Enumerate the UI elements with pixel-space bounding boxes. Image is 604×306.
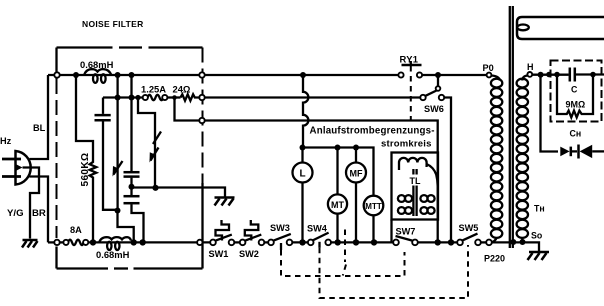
svg-text:Hz: Hz (0, 136, 12, 146)
svg-text:Tн: Tн (534, 204, 545, 214)
svg-text:MTT: MTT (365, 202, 382, 211)
svg-text:560KΩ: 560KΩ (80, 153, 91, 187)
svg-text:H: H (527, 62, 534, 72)
svg-text:SW4: SW4 (307, 224, 328, 234)
svg-text:9MΩ: 9MΩ (566, 100, 586, 110)
svg-text:P220: P220 (484, 254, 505, 264)
svg-text:P0: P0 (483, 63, 494, 73)
svg-text:0.68mH: 0.68mH (96, 249, 130, 260)
svg-text:RY1: RY1 (400, 54, 419, 65)
svg-text:Anlaufstrombegrenzungs-: Anlaufstrombegrenzungs- (310, 126, 435, 137)
svg-text:SW2: SW2 (239, 249, 259, 259)
svg-text:BL: BL (33, 123, 46, 133)
svg-text:MT: MT (331, 200, 344, 210)
svg-text:0.68mH: 0.68mH (80, 59, 114, 70)
svg-text:NOISE FILTER: NOISE FILTER (82, 19, 144, 29)
svg-text:TL: TL (410, 176, 421, 186)
svg-text:24Ω: 24Ω (173, 83, 191, 94)
svg-text:Sо: Sо (531, 231, 543, 241)
svg-text:BR: BR (32, 208, 46, 219)
svg-text:C: C (571, 85, 578, 95)
svg-text:SW6: SW6 (424, 104, 444, 114)
svg-text:1.25A: 1.25A (141, 83, 166, 94)
svg-text:SW7: SW7 (396, 227, 416, 237)
svg-text:stromkreis: stromkreis (381, 139, 432, 150)
svg-text:L: L (299, 169, 305, 180)
svg-text:SW5: SW5 (459, 223, 479, 233)
svg-text:8A: 8A (70, 225, 82, 235)
svg-text:SW3: SW3 (270, 223, 290, 233)
svg-text:Y/G: Y/G (7, 208, 24, 219)
svg-text:MF: MF (350, 168, 363, 178)
svg-text:Cн: Cн (570, 129, 582, 139)
svg-text:SW1: SW1 (209, 249, 229, 259)
